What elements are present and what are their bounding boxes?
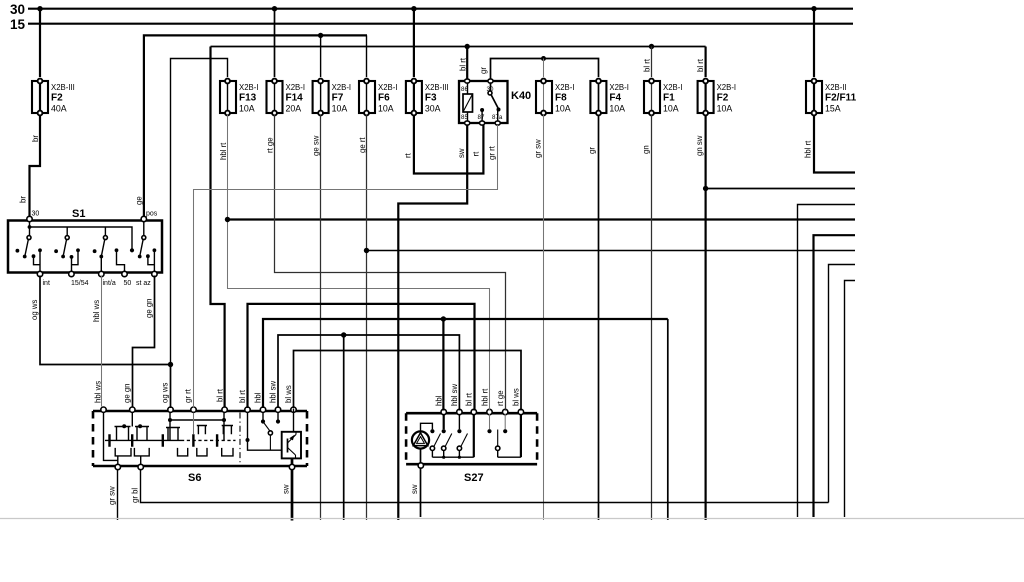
wire ge rt F6 down: [358, 115, 367, 520]
fuse F3 30A: [406, 79, 449, 116]
svg-text:rt ge: rt ge: [496, 390, 505, 406]
S6 inner bracket 4 below: [197, 448, 207, 456]
relay K40: [459, 79, 531, 125]
S6 inner bracket 2 below: [134, 448, 149, 464]
pin 86: [465, 79, 470, 83]
svg-text:10A: 10A: [663, 104, 679, 114]
svg-text:hbl ws: hbl ws: [94, 381, 103, 403]
wire hbl ws S1 int/a to S6 pin1: [92, 276, 103, 407]
fuse F1 10A: [644, 79, 683, 116]
svg-text:F2: F2: [51, 93, 63, 104]
svg-text:S6: S6: [188, 472, 201, 484]
svg-text:10A: 10A: [239, 104, 255, 114]
S6 top pin 1 hbl ws: [101, 407, 106, 412]
svg-text:ge gn: ge gn: [123, 383, 132, 403]
svg-text:X2B-I: X2B-I: [239, 83, 259, 92]
svg-text:X2B-II: X2B-II: [825, 83, 847, 92]
svg-text:F4: F4: [609, 93, 621, 104]
svg-text:X2B-III: X2B-III: [51, 83, 75, 92]
S6 top pin 8 hbl sw: [275, 407, 280, 412]
svg-text:br: br: [31, 135, 40, 142]
svg-text:bl rt: bl rt: [465, 392, 474, 406]
svg-text:ge sw: ge sw: [312, 135, 321, 156]
svg-text:15: 15: [10, 17, 26, 32]
wire right stub y264: [829, 265, 856, 503]
hazard switch S27: [406, 409, 537, 484]
svg-text:hbl rt: hbl rt: [481, 388, 490, 406]
node F2 line188: [703, 186, 708, 191]
svg-text:rt: rt: [472, 151, 481, 157]
S27 hazard lamp symbol: [412, 431, 429, 463]
S6 bottom pin sw: [289, 464, 294, 469]
svg-text:hbl ws: hbl ws: [92, 300, 101, 322]
fuse F13 10A: [220, 79, 259, 116]
svg-text:gr sw: gr sw: [108, 486, 117, 505]
wire S6 pin6 to S27 pin3: [238, 304, 475, 411]
wire rt F3 to K40 pin87: [404, 115, 484, 174]
fuse F8 10A: [536, 79, 575, 116]
S6 top pin 7 hbl: [260, 407, 265, 412]
S1 switch contact 4: [138, 236, 157, 272]
pin 15/54: [69, 271, 74, 276]
wire ge gn S1 st az to S6 pin2: [123, 276, 155, 407]
wire line 250 to right edge: [367, 250, 856, 252]
svg-text:ge gn: ge gn: [145, 298, 154, 318]
pin int/a: [99, 271, 104, 276]
svg-text:pos: pos: [146, 211, 158, 218]
svg-text:F3: F3: [425, 93, 437, 104]
bus 15: [10, 17, 853, 32]
fuse F2/F11 15A: [806, 79, 857, 116]
node hbl sw branch: [341, 332, 346, 337]
S6 top pin 3 og ws: [168, 407, 173, 412]
svg-text:50: 50: [124, 280, 132, 287]
S1 inner rail: [30, 221, 144, 249]
svg-text:hbl rt: hbl rt: [219, 142, 228, 160]
svg-text:X2B-III: X2B-III: [425, 83, 449, 92]
switch module S6: [93, 407, 307, 484]
fuse F14 20A: [267, 79, 306, 116]
wire gr sw F8 down: [534, 115, 544, 520]
node lineD-F8: [541, 56, 546, 61]
svg-text:ge rt: ge rt: [358, 137, 367, 153]
fuse F7 10A: [313, 79, 352, 116]
wire br F2 to S1 pin30: [19, 115, 41, 216]
fuse F2 10A: [698, 79, 737, 116]
svg-text:X2B-I: X2B-I: [663, 83, 683, 92]
svg-text:F2: F2: [717, 93, 729, 104]
S6 inner link pin6: [248, 413, 282, 451]
contact K40: [490, 83, 492, 91]
wire bus30 to F2/F11: [813, 9, 815, 77]
svg-text:sw: sw: [410, 484, 419, 494]
wire sw K40 pin85 down: [398, 125, 467, 520]
S6 inner bracket 5 below: [222, 448, 233, 456]
svg-text:F1: F1: [663, 93, 675, 104]
coil K40: [467, 83, 469, 121]
pin int: [37, 271, 42, 276]
S6 transistor box: [282, 432, 301, 459]
wire line 219 to right edge: [228, 218, 856, 220]
S27 top pin 4 hbl rt: [487, 409, 492, 414]
S6 inner link pin1: [104, 413, 118, 464]
svg-text:gn: gn: [642, 145, 651, 154]
svg-text:X2B-I: X2B-I: [609, 83, 629, 92]
svg-text:10A: 10A: [378, 104, 394, 114]
S6 inner main line: [105, 439, 181, 441]
S6 bottom pin gr bl: [138, 464, 143, 469]
svg-text:hbl rt: hbl rt: [804, 140, 813, 158]
svg-text:F7: F7: [332, 93, 344, 104]
wire bl rt lineB to S6 pin5: [211, 47, 225, 409]
svg-text:rt ge: rt ge: [266, 137, 275, 153]
svg-text:sw: sw: [282, 484, 291, 494]
svg-text:X2B-I: X2B-I: [555, 83, 575, 92]
svg-text:X2B-I: X2B-I: [717, 83, 737, 92]
svg-text:X2B-I: X2B-I: [378, 83, 398, 92]
svg-text:rt: rt: [404, 152, 413, 158]
wire gn F1 down: [642, 115, 652, 520]
svg-text:F8: F8: [555, 93, 567, 104]
node lineB-F1: [649, 44, 654, 49]
svg-text:15A: 15A: [825, 104, 841, 114]
wire gr bl S6 bottom to right: [131, 470, 829, 503]
wire S6 pin8 hbl sw to S27 pin2: [269, 335, 460, 520]
pin 87a: [495, 121, 500, 125]
S6 inner contact bars: [110, 434, 218, 447]
node og ws junction: [168, 362, 173, 367]
svg-text:gn sw: gn sw: [695, 135, 704, 156]
wire right stub y235: [814, 235, 856, 517]
S27 top pin 3 bl rt: [471, 409, 476, 414]
svg-text:bl rt: bl rt: [459, 57, 468, 71]
wire right stub y281: [845, 281, 856, 518]
svg-text:ge: ge: [135, 196, 144, 205]
svg-text:S1: S1: [72, 208, 85, 220]
svg-text:hbl: hbl: [435, 395, 444, 406]
svg-text:K40: K40: [511, 90, 531, 102]
S27 contact dots row: [430, 429, 434, 433]
svg-text:st az: st az: [136, 280, 151, 287]
S6 inner cap a: [115, 413, 150, 441]
svg-text:X2B-I: X2B-I: [286, 83, 306, 92]
svg-text:10A: 10A: [609, 104, 625, 114]
wire S6 pin9 bl ws to S27 pin6: [284, 351, 521, 411]
wire sw S27 bottom: [410, 469, 421, 518]
wire bus30 to F3: [413, 9, 415, 77]
S6 top pin 4 gr rt: [191, 407, 196, 412]
svg-text:gr: gr: [588, 147, 597, 154]
svg-text:bl ws: bl ws: [512, 388, 521, 406]
svg-text:F6: F6: [378, 93, 390, 104]
node lineA-F7: [318, 33, 323, 38]
node bus30-F3: [411, 6, 416, 11]
S27 top pin 5 rt ge: [503, 409, 508, 414]
svg-text:gr rt: gr rt: [184, 388, 193, 403]
pin 30: [488, 79, 493, 83]
S1 switch contact 1: [16, 236, 42, 272]
pin 50: [122, 271, 127, 276]
svg-text:br: br: [19, 196, 28, 203]
S6 divider: [239, 413, 241, 465]
S27 lamp feed link: [421, 423, 433, 431]
svg-text:87: 87: [478, 114, 485, 121]
svg-text:og ws: og ws: [161, 383, 170, 403]
S6 transistor: [287, 439, 289, 453]
svg-text:sw: sw: [457, 148, 466, 158]
wire ge sw F7 down: [312, 115, 321, 520]
wire line B (S6/K40-86/F1/F2 rail): [211, 46, 706, 48]
fuse F6 10A: [359, 79, 398, 116]
S6 bottom pin gr sw: [115, 464, 120, 469]
svg-text:F14: F14: [286, 93, 304, 104]
svg-text:hbl sw: hbl sw: [269, 381, 278, 403]
svg-text:30: 30: [32, 211, 40, 218]
wire line A (F7/F6/S1-pos rail): [144, 35, 367, 216]
svg-text:int/a: int/a: [103, 280, 116, 287]
node bus30-F14: [272, 6, 277, 11]
S6 transistor out: [291, 458, 294, 464]
svg-text:F2/F11: F2/F11: [825, 93, 857, 104]
svg-text:bl rt: bl rt: [238, 389, 247, 403]
S6 top pin 6 bl rt: [245, 407, 250, 412]
wire bl rt lineB to K40 pin86: [459, 47, 468, 82]
fuse F2 40A: [32, 79, 75, 116]
pin 30: [27, 216, 32, 221]
svg-text:10A: 10A: [332, 104, 348, 114]
S27 switch blades left: [430, 434, 467, 451]
svg-text:40A: 40A: [51, 104, 67, 114]
node F13 line219: [225, 217, 230, 222]
S6 inner pin4 stub: [193, 413, 195, 435]
svg-text:bl rt: bl rt: [216, 388, 225, 402]
svg-text:10A: 10A: [717, 104, 733, 114]
wire gr rt K40 pin87a to S6 pin4: [184, 125, 498, 408]
wire lineB to F1: [643, 47, 652, 78]
S27 bottom pin sw: [418, 463, 423, 468]
svg-text:gr bl: gr bl: [131, 488, 140, 503]
wire lineA to F6: [366, 35, 368, 77]
S6 top pin 2 ge gn: [130, 407, 135, 412]
S27 top pin 2 hbl sw: [457, 409, 462, 414]
pin 85: [465, 121, 470, 125]
svg-text:bl ws: bl ws: [284, 385, 293, 403]
wire line C (F13 feed): [171, 59, 228, 365]
svg-text:og ws: og ws: [30, 300, 39, 320]
svg-text:20A: 20A: [286, 104, 302, 114]
wire gn sw F2 down: [695, 115, 706, 520]
node lineB-K40-86: [465, 44, 470, 49]
bus 30: [10, 2, 853, 17]
wire lineA to F7: [320, 35, 322, 77]
fuse F4 10A: [590, 79, 629, 116]
wire right stub y204: [798, 205, 856, 518]
pin st az: [152, 271, 157, 276]
svg-text:hbl: hbl: [254, 392, 263, 403]
switch block S1: [8, 208, 162, 287]
S6 inner contact pin7: [262, 413, 264, 420]
svg-text:int: int: [43, 280, 50, 287]
pin pos: [141, 216, 146, 221]
svg-text:gr: gr: [479, 67, 488, 74]
wire line D (K40-30/F8/F4 rail): [479, 59, 599, 82]
S27 bottom rail left: [432, 451, 473, 458]
S6 top pin 9 bl ws: [291, 407, 296, 412]
wire og ws S1 int to S6 pin3: [30, 276, 171, 409]
svg-text:30A: 30A: [425, 104, 441, 114]
wire gr F4 down: [588, 115, 599, 520]
svg-text:F13: F13: [239, 93, 257, 104]
node bus30-F2: [37, 6, 42, 11]
S6 inner contact pin8: [277, 413, 279, 420]
wire rt ge F14 to S27 pin5: [266, 115, 506, 411]
page edge line: [0, 518, 1024, 520]
S6 inner bracket 1 below: [115, 448, 131, 456]
wire gr sw S6 bottom: [108, 470, 118, 520]
svg-text:hbl sw: hbl sw: [450, 384, 459, 406]
svg-text:gr rt: gr rt: [488, 145, 497, 160]
S27 right switch: [490, 414, 521, 457]
wire bus30 to F14: [274, 9, 276, 77]
svg-text:15/54: 15/54: [71, 280, 89, 287]
S1 switch contact 2: [54, 236, 80, 272]
svg-text:30: 30: [10, 2, 25, 17]
svg-text:X2B-I: X2B-I: [332, 83, 352, 92]
wire hbl rt F13 to S27 pin4: [219, 115, 490, 411]
S1 switch contact 3: [93, 236, 125, 272]
wire sw S6 bottom: [282, 470, 293, 521]
svg-text:bl rt: bl rt: [696, 58, 705, 72]
node F6 line250: [364, 248, 369, 253]
svg-text:10A: 10A: [555, 104, 571, 114]
node bus30-F2/F11: [811, 6, 816, 11]
S27 pin wires left: [443, 414, 445, 429]
wire S6 pin7 hbl to S27 pin1 and down: [254, 319, 668, 520]
wire line 188 to right edge: [706, 188, 855, 190]
wire hbl rt F2/F11 to right edge: [804, 115, 856, 173]
wire lineD to F8: [543, 59, 545, 78]
S6 inner bracket 3 below: [178, 448, 188, 456]
svg-text:bl rt: bl rt: [643, 58, 652, 72]
S6 inner brackets above: [166, 428, 180, 441]
svg-text:gr sw: gr sw: [534, 139, 543, 158]
svg-text:S27: S27: [464, 472, 484, 484]
S6 top pin 5 bl rt: [222, 407, 227, 412]
S27 top pin 6 bl ws: [518, 409, 523, 414]
wire lineB to F2: [696, 47, 706, 78]
wire bus30 to F2: [39, 9, 41, 77]
S6 inner cap b: [170, 413, 224, 441]
S27 top pin 1 hbl: [441, 409, 446, 414]
node hbl branch: [441, 316, 446, 321]
pin 87: [480, 121, 485, 125]
